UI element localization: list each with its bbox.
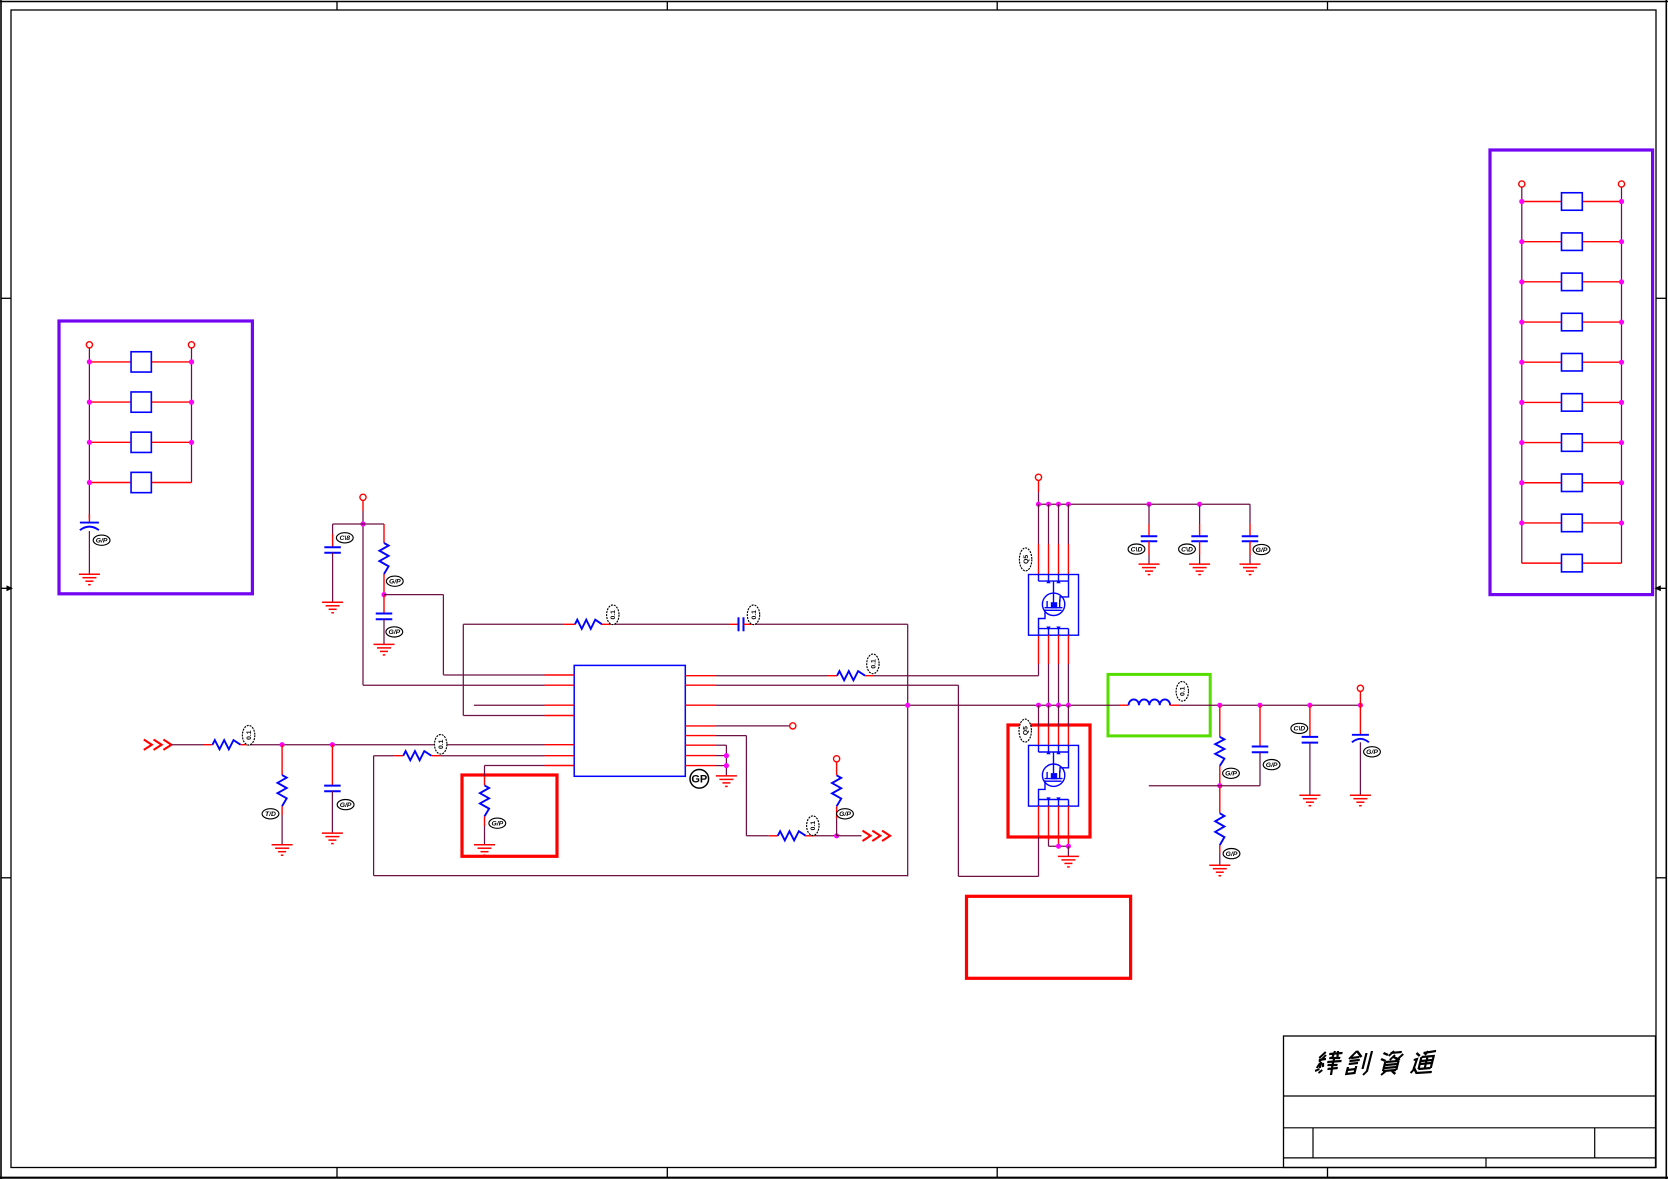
svg-text:0.1: 0.1 [1180,686,1187,696]
svg-text:C\8: C\8 [340,535,351,542]
svg-text:Q5: Q5 [1023,726,1030,735]
svg-text:G/P: G/P [839,811,851,818]
svg-text:G/P: G/P [389,579,401,586]
svg-text:GP: GP [691,774,707,786]
svg-text:0.1: 0.1 [246,730,253,740]
svg-text:G/P: G/P [340,802,352,809]
svg-text:G/P: G/P [1266,762,1278,769]
svg-text:G/P: G/P [491,821,503,828]
svg-text:G/P: G/P [96,538,108,545]
svg-text:G/P: G/P [1226,851,1238,858]
svg-text:0.1: 0.1 [610,610,617,620]
svg-text:C\D: C\D [1181,546,1193,553]
svg-text:G/P: G/P [1225,771,1237,778]
svg-text:G/P: G/P [1256,547,1268,554]
svg-text:G/P: G/P [388,629,400,636]
svg-text:0.1: 0.1 [810,821,817,831]
svg-text:0.1: 0.1 [438,739,445,749]
svg-text:T/D: T/D [265,811,276,818]
svg-text:0.1: 0.1 [870,659,877,669]
svg-text:G/P: G/P [1366,749,1378,756]
svg-text:C\D: C\D [1293,726,1305,733]
svg-text:0.1: 0.1 [751,610,758,620]
svg-text:Q5: Q5 [1023,555,1030,564]
svg-text:C\D: C\D [1131,546,1143,553]
